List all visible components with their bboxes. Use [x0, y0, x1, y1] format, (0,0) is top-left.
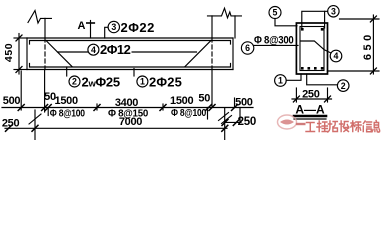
beam right edge	[232, 38, 234, 70]
label 1 section circle	[275, 75, 287, 87]
label 4 circle	[88, 44, 99, 55]
char gong	[306, 123, 315, 132]
section stirrup 5	[300, 27, 324, 71]
svg-text:A—A: A—A	[295, 103, 325, 117]
label 1 section leader	[286, 74, 301, 80]
hanger bar 4	[58, 51, 197, 53]
svg-text:250: 250	[238, 116, 256, 128]
svg-text:2: 2	[72, 77, 77, 87]
watermark text 工程招投标信息 drawn as strokes	[306, 121, 380, 133]
bottom rebar 1	[30, 64, 231, 68]
watermark logo	[278, 115, 380, 132]
bottom right column	[224, 109, 226, 141]
svg-text:7000: 7000	[119, 116, 142, 128]
right column face dashed	[211, 38, 213, 70]
svg-text:2Φ25: 2Φ25	[149, 75, 182, 90]
top rebar 3	[30, 41, 231, 45]
label 3 leader	[105, 27, 108, 38]
svg-text:500: 500	[235, 97, 253, 109]
svg-text:2wΦ25: 2wΦ25	[82, 75, 120, 90]
svg-text:5: 5	[273, 8, 278, 18]
7000 dim line	[5, 127, 227, 129]
svg-text:1: 1	[140, 77, 145, 87]
bent bar 2 right diagonal	[185, 41, 211, 67]
char xin	[363, 121, 371, 132]
section rebar dots bottom	[301, 67, 304, 70]
left column above beam with break	[28, 11, 51, 24]
right 250 dim	[225, 121, 241, 123]
right column above beam with break	[208, 8, 242, 18]
char tou	[340, 121, 349, 132]
dimension texts	[2, 35, 374, 130]
dim ticks	[18, 105, 237, 111]
section cut mark A	[90, 21, 92, 39]
label 3 section circle	[328, 6, 339, 17]
svg-text:2Φ22: 2Φ22	[121, 20, 155, 35]
svg-text:650: 650	[362, 35, 374, 60]
svg-text:450: 450	[3, 43, 15, 62]
beam bottom edge	[27, 69, 233, 71]
svg-text:50: 50	[198, 93, 210, 105]
beam top edge	[27, 37, 233, 39]
A-A title underline	[294, 115, 326, 118]
label 6 circle	[241, 42, 253, 54]
svg-text:3: 3	[111, 22, 116, 32]
extension lines	[20, 71, 22, 110]
label 1 leader	[133, 69, 135, 77]
svg-text:2: 2	[341, 81, 346, 91]
svg-text:A: A	[78, 20, 86, 32]
svg-text:3: 3	[331, 7, 336, 17]
label 2 section circle	[337, 80, 349, 92]
label 4 section circle	[330, 50, 342, 62]
left column face dashed	[44, 38, 46, 70]
svg-text:500: 500	[3, 95, 21, 107]
char biao	[351, 121, 361, 132]
section 650 dim	[340, 18, 380, 20]
label 3 section leader	[302, 11, 328, 28]
svg-text:250: 250	[302, 89, 320, 101]
section 250 dim	[295, 88, 297, 102]
svg-text:4: 4	[91, 45, 96, 55]
beam left edge	[26, 38, 28, 70]
450 dim	[14, 37, 27, 39]
svg-text:4: 4	[334, 51, 339, 61]
svg-text:2Φ12: 2Φ12	[100, 42, 131, 57]
svg-text:6: 6	[245, 43, 250, 53]
svg-text:1500: 1500	[55, 95, 78, 107]
label 6 leader	[254, 44, 298, 46]
char xi	[372, 121, 380, 133]
label 3 circle	[108, 21, 119, 32]
section bent bar 4 indicator	[301, 41, 324, 50]
bottom left column	[34, 110, 36, 140]
rebar label texts	[82, 20, 182, 90]
label 2 section leader	[307, 74, 338, 85]
char cheng	[317, 121, 327, 132]
watermark dash	[296, 123, 306, 125]
bent bar 2 left diagonal	[46, 41, 72, 67]
label 5 circle	[269, 7, 281, 19]
label 4 text background	[99, 44, 132, 54]
svg-text:1: 1	[278, 76, 283, 86]
svg-text:Φ 8@100: Φ 8@100	[50, 107, 85, 119]
section outer rect	[296, 23, 327, 74]
label 2 circle	[69, 76, 80, 87]
label 5 leader	[275, 19, 297, 26]
dimension line 1	[2, 107, 253, 109]
char zhao	[328, 121, 338, 132]
svg-text:Φ 8@300: Φ 8@300	[254, 35, 294, 47]
label 1 circle	[137, 76, 148, 87]
circled digits	[72, 7, 346, 91]
section rebar dots top	[301, 28, 323, 70]
svg-text:1500: 1500	[170, 95, 193, 107]
svg-text:Φ 8@100: Φ 8@100	[171, 107, 206, 119]
label 2 leader	[66, 67, 68, 76]
label 4 section leader	[324, 50, 331, 53]
svg-text:250: 250	[2, 118, 20, 130]
